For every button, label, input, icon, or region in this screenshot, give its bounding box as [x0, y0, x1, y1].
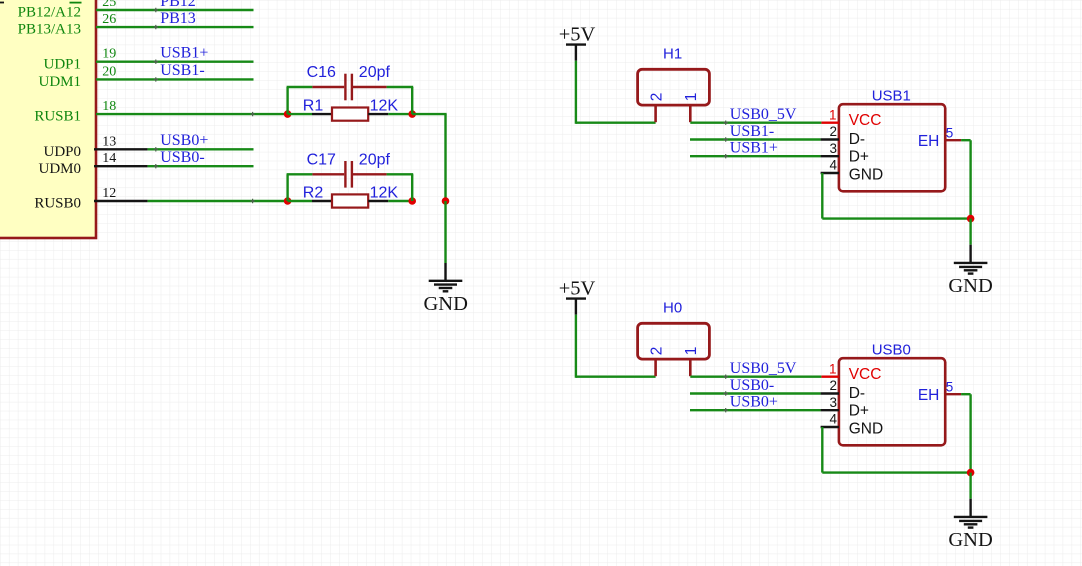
net label USB1+ at IC: [160, 45, 208, 62]
power port +5V (USB0 section): [559, 278, 596, 315]
pin number 14: [102, 151, 116, 166]
svg-text:USB1+: USB1+: [730, 140, 778, 157]
junction right of R2: [408, 197, 416, 205]
USB0 pin 1 number: [829, 361, 837, 376]
header H1 pin 1: [689, 105, 692, 122]
svg-text:2: 2: [648, 93, 665, 102]
pin 25 wire: [96, 8, 254, 12]
net label PB13 at IC: [160, 10, 196, 27]
junction right of R1: [408, 110, 416, 118]
svg-text:UDM0: UDM0: [38, 161, 81, 177]
junction left of R1: [284, 110, 292, 118]
svg-text:14: 14: [102, 151, 116, 166]
wire R2 right: [388, 200, 412, 202]
pin name UDM0: [38, 161, 81, 177]
junction at USB0 ground: [967, 469, 975, 477]
svg-text:EH: EH: [918, 387, 940, 404]
svg-text:USB0_5V: USB0_5V: [730, 106, 797, 123]
capacitor C16 right lead: [353, 86, 387, 88]
ground symbol left: [429, 263, 463, 291]
USB1 pin name VCC: [849, 112, 882, 129]
svg-text:20: 20: [102, 64, 116, 79]
pin number 26: [102, 12, 116, 27]
wire R1 right: [388, 113, 412, 115]
ground symbol USB1: [954, 245, 988, 274]
svg-text:2: 2: [829, 124, 837, 139]
label GND USB0: [948, 529, 992, 551]
USB0 pin 5 number: [946, 379, 954, 394]
svg-text:GND: GND: [849, 167, 883, 184]
svg-text:18: 18: [102, 99, 116, 114]
wire USB1- to USB1 D-: [690, 137, 821, 141]
USB0 pin 3 number: [829, 395, 837, 410]
label R2: [303, 184, 324, 201]
USB0 pin 1 (VCC): [821, 376, 839, 378]
svg-text:20pf: 20pf: [359, 151, 391, 168]
label C17 value: [359, 151, 391, 168]
wire USB0 pin4 to ground rail: [822, 427, 970, 473]
USB1 pin 5 number: [946, 125, 954, 140]
label USB0: [872, 342, 911, 359]
capacitor C17 left lead: [312, 173, 344, 175]
wire C17 right riser: [387, 174, 414, 201]
svg-text:EH: EH: [918, 133, 940, 150]
label USB1: [872, 88, 911, 105]
pin 12 wire (RUSB0 net): [148, 199, 288, 203]
USB1 pin 3 stub: [821, 155, 839, 157]
USB0 pin 4 stub: [821, 426, 839, 428]
pin name PB13/A13: [18, 22, 81, 38]
svg-text:25: 25: [102, 0, 116, 10]
R2 left lead: [312, 200, 332, 202]
svg-text:GND: GND: [849, 421, 883, 438]
wire USB0 junction to ground: [969, 473, 971, 499]
wire +5V to H0: [576, 315, 656, 378]
junction left of R2: [284, 197, 292, 205]
header H1 body: [638, 69, 710, 105]
power port +5V (USB1 section): [559, 24, 596, 61]
overline over A12 of pin name PB12/A12: [70, 2, 82, 4]
USB0 pin name D-: [849, 385, 865, 402]
svg-text:26: 26: [102, 12, 116, 27]
svg-text:D+: D+: [849, 403, 869, 420]
pin name UDP0: [43, 144, 81, 160]
connector USB0 body: [839, 358, 945, 445]
pin 14 wire: [148, 164, 254, 168]
USB0 pin 5 stub: [945, 393, 961, 395]
pin 20 wire: [96, 77, 254, 81]
svg-text:C17: C17: [307, 151, 336, 168]
USB0 pin name EH: [918, 387, 940, 404]
svg-text:12K: 12K: [370, 98, 399, 115]
svg-text:GND: GND: [423, 293, 467, 315]
pin 26 wire: [96, 25, 254, 29]
label R1 value: [370, 98, 399, 115]
label C17: [307, 151, 336, 168]
svg-text:VCC: VCC: [849, 112, 882, 129]
USB1 pin 4 number: [829, 158, 837, 173]
label H0: [663, 299, 682, 316]
wire USB1 pin5 to ground rail: [961, 140, 971, 218]
net label USB0+ at IC: [160, 132, 208, 149]
svg-text:12: 12: [102, 186, 116, 201]
pin name RUSB0: [34, 196, 81, 212]
net label USB0- (USB0 section): [730, 377, 774, 394]
svg-text:1: 1: [829, 361, 837, 376]
header H0 pin 1 number: [683, 347, 700, 356]
USB1 pin 1 number: [829, 107, 837, 122]
label GND USB1: [948, 275, 992, 297]
svg-text:RUSB1: RUSB1: [34, 109, 81, 125]
pin number 20: [102, 64, 116, 79]
pin number 25: [102, 0, 116, 10]
capacitor C17 right lead: [353, 173, 387, 175]
label R2 value: [370, 184, 399, 201]
ground symbol USB0: [954, 499, 988, 528]
USB1 pin 5 stub: [945, 139, 961, 141]
header H0 pin 2: [654, 359, 657, 376]
net label USB0_5V (USB0 section): [730, 360, 797, 377]
USB1 pin 3 number: [829, 141, 837, 156]
net label USB1- (USB1 section): [730, 123, 774, 140]
junction at USB1 ground: [967, 215, 975, 223]
svg-text:VCC: VCC: [849, 366, 882, 383]
svg-text:H0: H0: [663, 299, 682, 316]
svg-text:R1: R1: [303, 98, 324, 115]
wire USB1 pin4 to ground rail: [822, 173, 970, 219]
svg-text:PB12/A12: PB12/A12: [18, 5, 81, 21]
header H1 pin 2: [654, 105, 657, 122]
svg-text:UDP0: UDP0: [43, 144, 81, 160]
net label USB1+ (USB1 section): [730, 140, 778, 157]
pin name UDM1: [38, 74, 81, 90]
USB0 pin 3 stub: [821, 409, 839, 411]
svg-text:USB0-: USB0-: [160, 149, 204, 166]
wire USB0- to USB0 D-: [690, 391, 821, 395]
net label USB0_5V (USB1 section): [730, 106, 797, 123]
label C16: [307, 64, 336, 81]
pin 12 stub: [94, 200, 148, 202]
USB0 pin 2 stub: [821, 392, 839, 394]
wire H0 pin1 to USB0 VCC: [690, 375, 821, 379]
wire R1 left: [288, 113, 312, 115]
header H1 pin 1 number: [683, 93, 700, 102]
label H1: [663, 45, 682, 62]
connector USB1 body: [839, 104, 945, 191]
svg-text:3: 3: [829, 141, 837, 156]
svg-text:GND: GND: [948, 275, 992, 297]
USB1 pin 2 number: [829, 124, 837, 139]
svg-text:13: 13: [102, 134, 116, 149]
svg-text:19: 19: [102, 47, 116, 62]
svg-text:D+: D+: [849, 149, 869, 166]
svg-text:C16: C16: [307, 64, 336, 81]
USB1 pin 4 stub: [821, 172, 839, 174]
svg-text:H1: H1: [663, 45, 682, 62]
USB0 pin name D+: [849, 403, 869, 420]
header H0 pin 2 number: [648, 347, 665, 356]
net label PB12 at IC: [160, 0, 196, 10]
capacitor C17 plates: [345, 161, 352, 188]
pin name RUSB1: [34, 109, 81, 125]
USB0 pin 4 number: [829, 412, 837, 427]
pin number 12: [102, 186, 116, 201]
overline tick top-left (clipped pin name): [0, 2, 4, 4]
USB1 pin 2 stub: [821, 138, 839, 140]
wire H1 pin1 to USB1 VCC: [690, 121, 821, 125]
svg-text:USB0+: USB0+: [160, 132, 208, 149]
svg-text:USB0: USB0: [872, 342, 911, 359]
svg-text:3: 3: [829, 395, 837, 410]
svg-text:USB1: USB1: [872, 88, 911, 105]
pin 19 wire: [96, 60, 254, 64]
svg-text:UDM1: UDM1: [38, 74, 81, 90]
header H0 pin 1: [689, 359, 692, 376]
net label USB0- at IC: [160, 149, 204, 166]
svg-text:USB1-: USB1-: [160, 62, 204, 79]
wire C17 left riser: [287, 174, 313, 201]
wire C16 right riser: [387, 87, 414, 114]
svg-text:+5V: +5V: [559, 24, 596, 46]
net label USB1- at IC: [160, 62, 204, 79]
svg-text:USB1-: USB1-: [730, 123, 774, 140]
svg-text:20pf: 20pf: [359, 64, 391, 81]
wire USB1 junction to ground: [969, 219, 971, 245]
svg-text:USB0_5V: USB0_5V: [730, 360, 797, 377]
IC U1 body (partial, clipped at left/top): [0, 0, 96, 238]
USB0 pin name VCC: [849, 366, 882, 383]
svg-text:1: 1: [683, 347, 700, 356]
wire R2 left: [288, 200, 312, 202]
svg-text:5: 5: [946, 379, 954, 394]
wire +5V to H1: [576, 61, 656, 124]
svg-text:D-: D-: [849, 385, 865, 402]
net label USB0+ (USB0 section): [730, 394, 778, 411]
USB0 pin name GND: [849, 421, 883, 438]
svg-text:4: 4: [829, 412, 837, 427]
USB1 pin 1 (VCC): [821, 121, 839, 123]
capacitor C16 left lead: [312, 86, 344, 88]
svg-text:1: 1: [683, 93, 700, 102]
label GND left: [423, 293, 467, 315]
svg-text:RUSB0: RUSB0: [34, 196, 81, 212]
resistor R2 body: [332, 194, 368, 207]
pin name UDP1: [43, 56, 81, 72]
header H0 body: [638, 323, 710, 359]
svg-text:2: 2: [829, 378, 837, 393]
USB1 pin name EH: [918, 133, 940, 150]
svg-text:+5V: +5V: [559, 278, 596, 300]
pin 13 stub: [94, 148, 148, 150]
svg-text:USB1+: USB1+: [160, 45, 208, 62]
pin 14 stub: [94, 165, 148, 167]
svg-text:PB13/A13: PB13/A13: [18, 22, 81, 38]
header H1 pin 2 number: [648, 93, 665, 102]
junction at R2 right / bus: [442, 197, 450, 205]
svg-text:USB0-: USB0-: [730, 377, 774, 394]
wire USB1+ to USB1 D+: [690, 154, 821, 158]
svg-text:PB13: PB13: [160, 10, 196, 27]
capacitor C16 plates: [345, 74, 352, 101]
pin number 13: [102, 134, 116, 149]
pin name PB12/A12: [18, 5, 81, 21]
svg-text:PB12: PB12: [160, 0, 196, 10]
pin number 19: [102, 47, 116, 62]
svg-text:4: 4: [829, 158, 837, 173]
svg-text:R2: R2: [303, 184, 324, 201]
pin 13 wire: [148, 147, 254, 151]
pin 18 wire (RUSB1 net): [96, 112, 288, 116]
svg-text:UDP1: UDP1: [43, 56, 81, 72]
USB1 pin name GND: [849, 167, 883, 184]
USB1 pin name D-: [849, 131, 865, 148]
wire C16 left riser: [287, 87, 313, 114]
svg-text:1: 1: [829, 107, 837, 122]
USB0 pin 2 number: [829, 378, 837, 393]
svg-text:2: 2: [648, 347, 665, 356]
USB1 pin name D+: [849, 149, 869, 166]
R1 left lead: [312, 113, 332, 115]
resistor R1 body: [332, 108, 368, 121]
wire USB0 pin5 to ground rail: [961, 394, 971, 472]
pin number 18: [102, 99, 116, 114]
wire USB0+ to USB0 D+: [690, 408, 821, 412]
svg-text:USB0+: USB0+: [730, 394, 778, 411]
label C16 value: [359, 64, 391, 81]
label R1: [303, 98, 324, 115]
wire R1 junction to vertical bus: [412, 114, 446, 201]
svg-text:5: 5: [946, 125, 954, 140]
svg-text:GND: GND: [948, 529, 992, 551]
svg-text:12K: 12K: [370, 184, 399, 201]
svg-text:D-: D-: [849, 131, 865, 148]
R2 right lead: [368, 200, 388, 202]
wire vertical bus to GND: [444, 201, 446, 263]
R1 right lead: [368, 113, 388, 115]
